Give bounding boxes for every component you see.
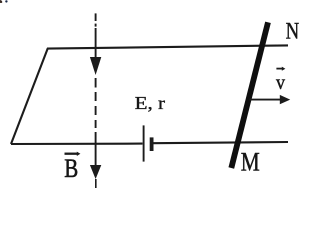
rod MN (sliding conductor) [231, 22, 268, 168]
rail: bottom edge, right segment from battery [153, 142, 288, 143]
label B with vector bar [64, 152, 80, 183]
svg-text:B: B [64, 154, 78, 183]
svg-text:v: v [276, 72, 285, 94]
magnetic field line B (vertical, partly dashed) [95, 13, 97, 188]
rail: left slanted edge of loop [11, 48, 48, 144]
rail: bottom edge, left segment to battery [11, 143, 143, 145]
svg-text:M: M [241, 146, 260, 176]
arrowhead of B line (upper) [90, 57, 101, 75]
label v with vector arrow [276, 67, 285, 94]
svg-text:E, r: E, r [135, 93, 166, 113]
stray cropped text mark top-left [0, 0, 8, 3]
svg-text:N: N [286, 19, 300, 45]
battery plate short thick (negative) [150, 137, 154, 151]
rail: top edge of loop [47, 45, 288, 48]
arrowhead of B line (lower) [90, 165, 101, 179]
battery plate long (positive) [143, 125, 145, 161]
velocity vector v (arrow) [250, 95, 291, 104]
